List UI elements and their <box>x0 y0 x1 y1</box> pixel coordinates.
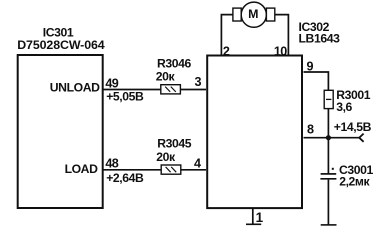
wire pin1 to ground <box>252 208 254 224</box>
svg-text:+14,5В: +14,5В <box>334 120 372 134</box>
wire pin49 to R3046 <box>103 89 161 91</box>
wire C3001 to end <box>327 180 329 225</box>
resistor R3046 <box>161 85 181 94</box>
svg-text:LB1643: LB1643 <box>299 32 341 46</box>
terminal arrow +14,5V <box>359 134 363 142</box>
svg-text:10: 10 <box>274 44 287 58</box>
junction node <box>326 135 331 140</box>
svg-text:2: 2 <box>223 44 230 58</box>
svg-text:M: M <box>248 7 258 21</box>
svg-text:20к: 20к <box>156 69 176 83</box>
svg-text:LOAD: LOAD <box>65 162 99 176</box>
wire motor right to pin10 <box>275 15 289 55</box>
svg-text:3: 3 <box>195 75 202 89</box>
wire R3001 to node <box>327 109 329 174</box>
ground bar pin1 <box>246 223 261 225</box>
svg-text:+5,05В: +5,05В <box>106 89 144 103</box>
wire pin48 to R3045 <box>103 169 162 171</box>
wire R3046 to pin3 <box>181 89 207 91</box>
svg-text:R3045: R3045 <box>157 137 192 151</box>
svg-text:3,6: 3,6 <box>336 100 352 114</box>
motor M <box>233 2 275 27</box>
wire pin8 to +14,5V terminal <box>304 137 360 139</box>
svg-text:+2,64В: +2,64В <box>106 171 144 185</box>
wire pin9 to R3001 <box>304 72 329 90</box>
ground bar under C3001 <box>321 224 337 226</box>
svg-text:D75028CW-064: D75028CW-064 <box>17 38 105 52</box>
wire R3045 to pin4 <box>181 169 206 171</box>
svg-text:8: 8 <box>307 122 314 136</box>
resistor R3001 <box>324 90 333 108</box>
svg-text:1: 1 <box>256 210 264 225</box>
svg-text:4: 4 <box>194 156 201 170</box>
svg-text:2,2мк: 2,2мк <box>339 175 370 189</box>
svg-text:R3046: R3046 <box>157 56 192 70</box>
capacitor C3001 <box>320 168 336 179</box>
wire motor left to pin2 <box>221 15 233 55</box>
svg-text:UNLOAD: UNLOAD <box>50 81 100 95</box>
svg-text:48: 48 <box>105 156 118 170</box>
resistor R3045 <box>161 165 181 174</box>
IC302 box <box>207 56 302 209</box>
IC301 box <box>18 55 103 208</box>
svg-text:20к: 20к <box>156 150 176 164</box>
